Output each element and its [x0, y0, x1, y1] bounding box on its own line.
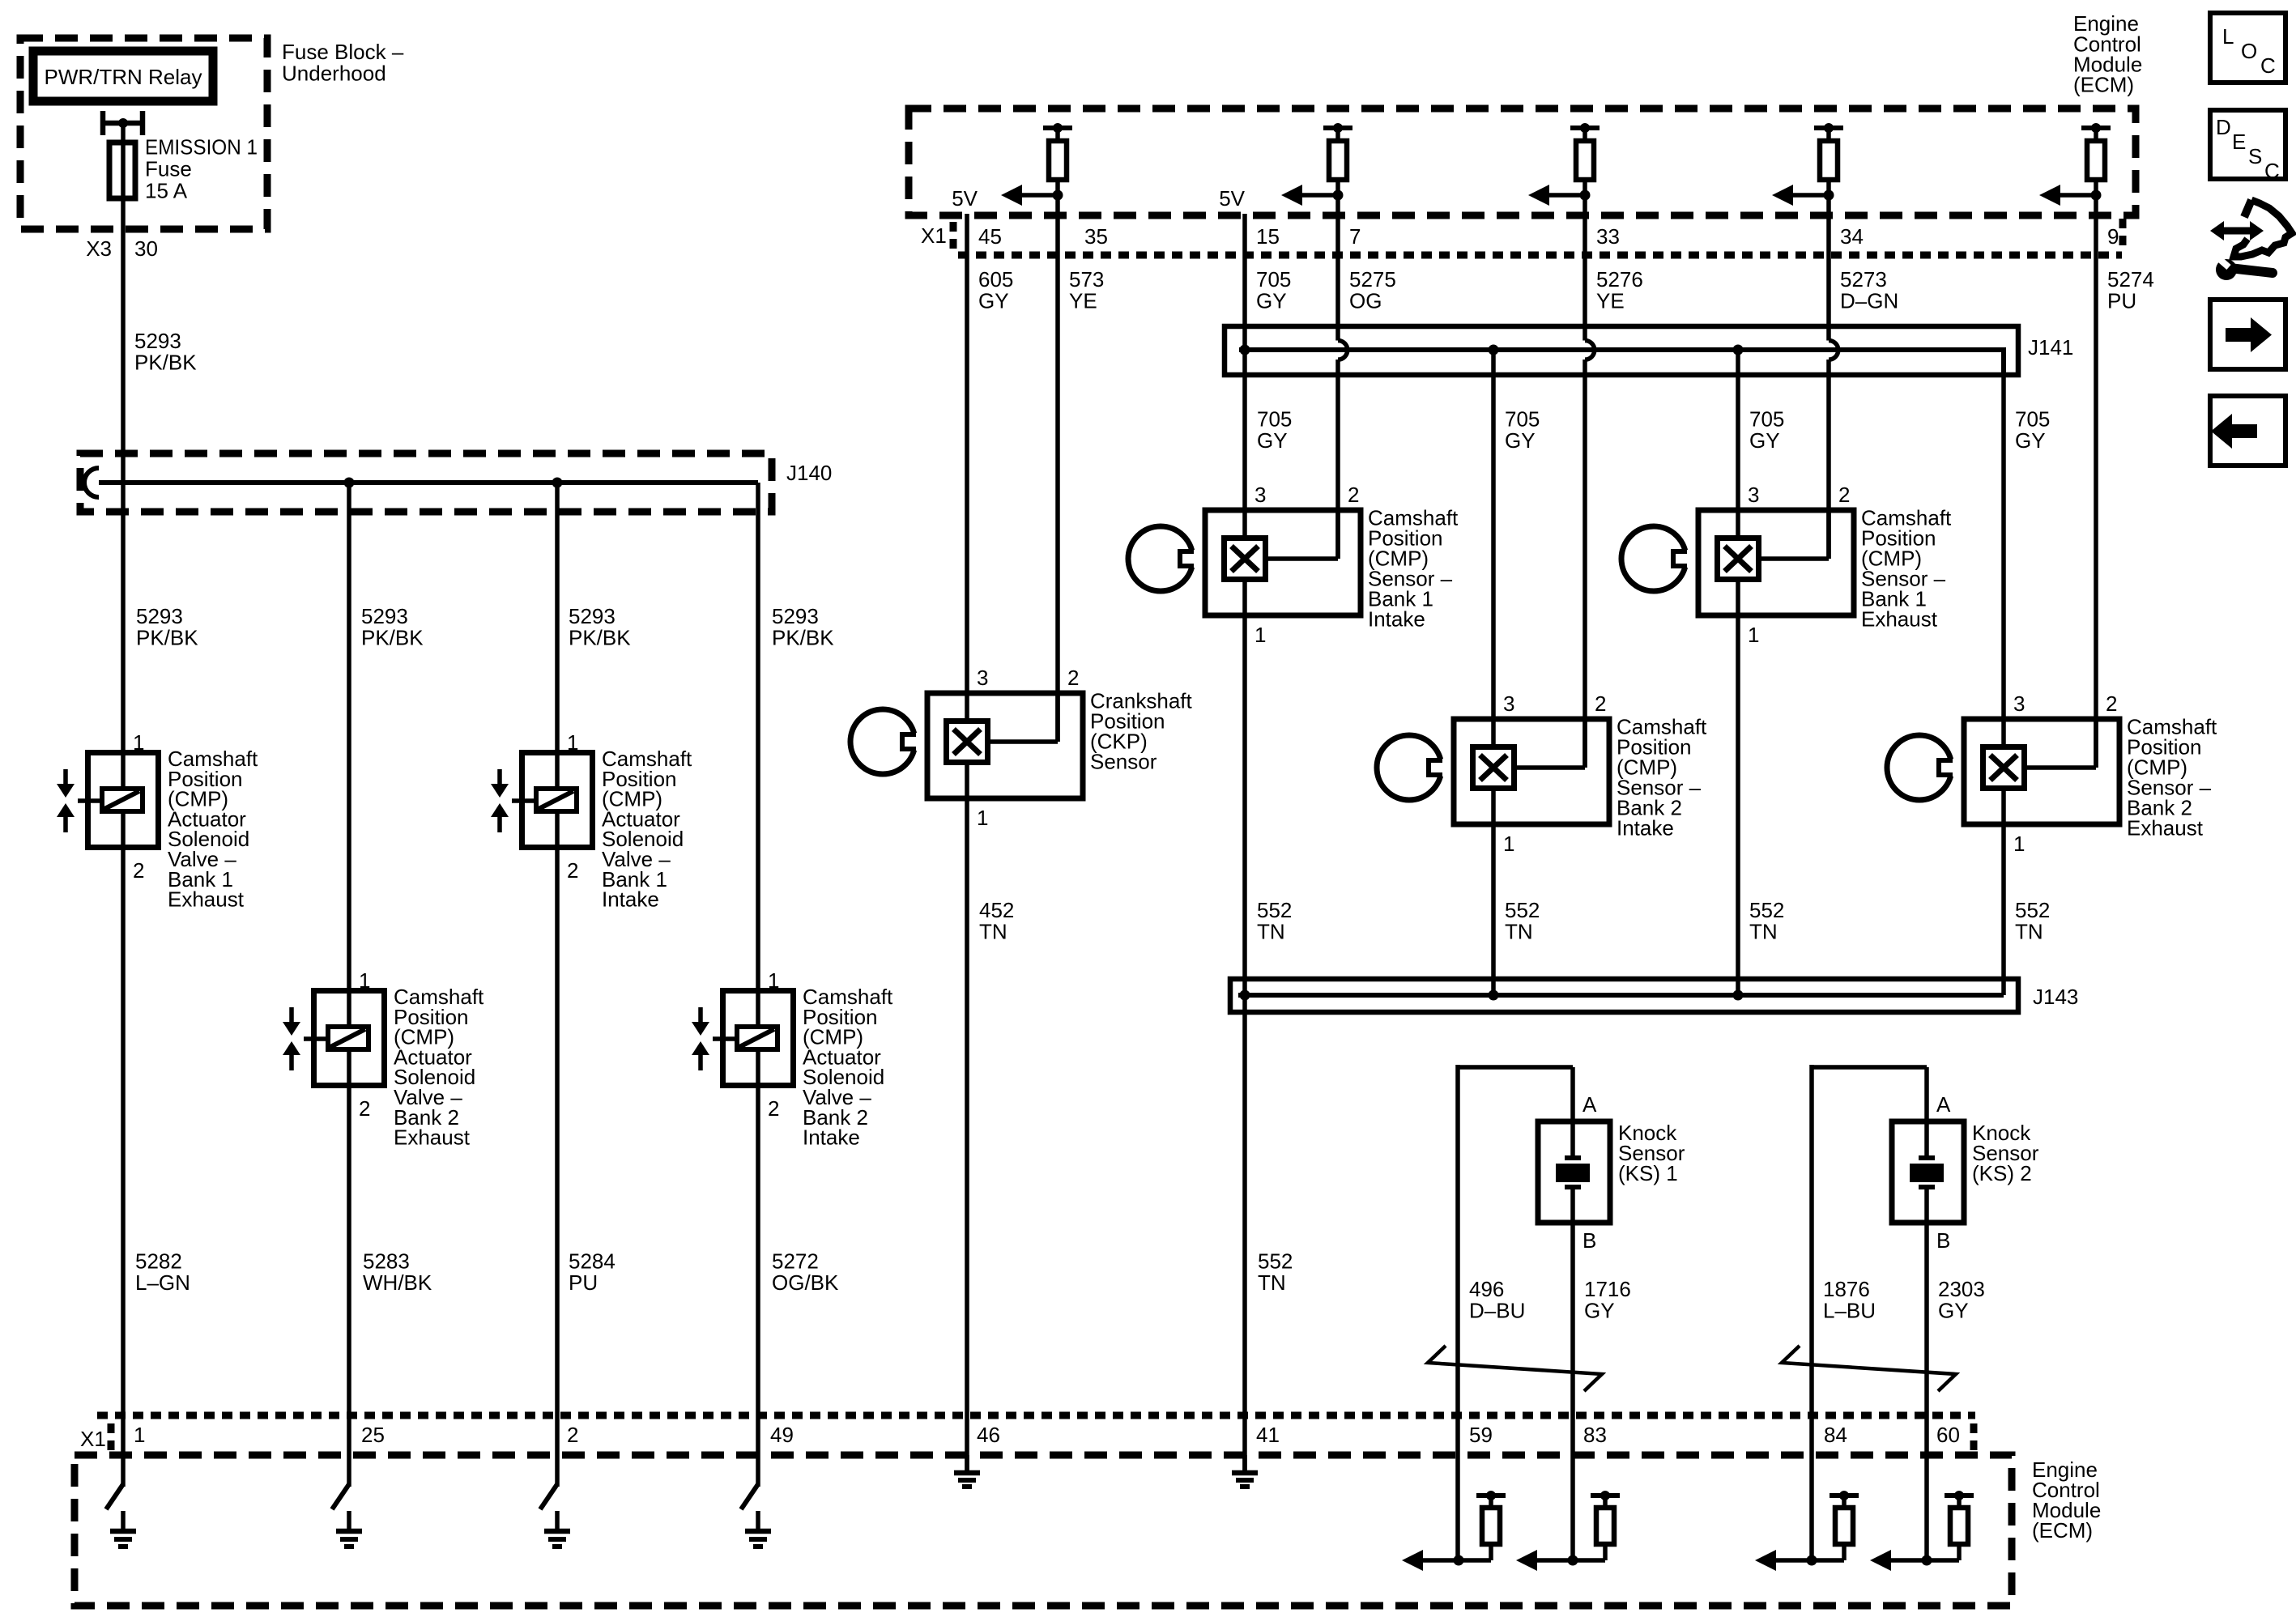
wire 5274 PU pin9 to CMP B2E pin2 — [2094, 195, 2098, 768]
ground pin 1 — [110, 1511, 136, 1547]
ECM internal switch contact pin 1 — [106, 1484, 123, 1509]
svg-text:605: 605 — [978, 267, 1013, 291]
svg-text:15: 15 — [1256, 224, 1280, 249]
svg-text:PU: PU — [2107, 289, 2136, 313]
svg-text:49: 49 — [770, 1423, 794, 1447]
svg-text:2: 2 — [1067, 666, 1079, 690]
svg-text:5282: 5282 — [135, 1249, 182, 1274]
wire 552 TN CMP B1E pin1 to J143 — [1736, 615, 1740, 995]
svg-text:2: 2 — [133, 858, 144, 883]
svg-text:PU: PU — [569, 1270, 598, 1295]
junction dot J143-3 — [1733, 990, 1744, 1001]
svg-text:(KS) 1: (KS) 1 — [1618, 1161, 1678, 1185]
ECM internal output arrow at pin 7 — [1281, 185, 1344, 206]
wire 5283 WH/BK — [347, 1088, 351, 1487]
svg-text:3: 3 — [1503, 691, 1514, 716]
wire 5276 YE pin33 to CMP B2I pin2 — [1582, 360, 1587, 768]
ECM internal bus arrow at pin 84 — [1755, 1550, 1844, 1571]
wire 705 GY J141 to CMP B2E pin3 — [2001, 375, 2006, 721]
CMP sensor bank 1 exhaust reluctor wheel — [1621, 526, 1692, 591]
svg-text:1: 1 — [359, 968, 370, 993]
solenoid CMP actuator bank 1 intake label — [602, 747, 692, 912]
svg-text:(ECM): (ECM) — [2032, 1518, 2093, 1543]
svg-text:D: D — [2216, 115, 2231, 139]
wire 552 TN CMP B1I pin1 to J143 — [1242, 615, 1247, 995]
fuse block label — [282, 40, 404, 86]
svg-text:5273: 5273 — [1840, 267, 1887, 291]
svg-text:60: 60 — [1936, 1423, 1960, 1447]
icon arrow right box — [2210, 300, 2285, 369]
svg-text:L: L — [2222, 24, 2234, 49]
svg-text:3: 3 — [1254, 483, 1266, 507]
svg-text:1: 1 — [2013, 832, 2025, 856]
svg-text:1: 1 — [134, 1423, 145, 1447]
svg-text:83: 83 — [1583, 1423, 1607, 1447]
wire 5293 PK/BK from fuse to J140 — [121, 145, 126, 485]
svg-text:552: 552 — [1505, 898, 1540, 922]
svg-text:Fuse: Fuse — [145, 157, 192, 181]
ECM internal output arrow at pin 35 — [1001, 185, 1063, 206]
svg-text:5284: 5284 — [569, 1249, 616, 1274]
ground pin 2 — [544, 1511, 570, 1547]
junction dot J140-3 — [552, 478, 563, 488]
ground pin 41 — [1232, 1455, 1258, 1487]
svg-text:25: 25 — [361, 1423, 385, 1447]
svg-text:J141: J141 — [2028, 335, 2073, 360]
svg-text:TN: TN — [979, 920, 1007, 944]
svg-text:33: 33 — [1596, 224, 1620, 249]
svg-text:41: 41 — [1256, 1423, 1280, 1447]
ECM internal resistor at pin 35 — [1043, 123, 1072, 195]
svg-text:X3: X3 — [86, 236, 112, 261]
J143 bus wire — [1238, 993, 2004, 998]
svg-text:46: 46 — [977, 1423, 1000, 1447]
svg-text:TN: TN — [1749, 920, 1778, 944]
svg-text:X1: X1 — [80, 1427, 106, 1451]
wire label 1876 L–BU — [1823, 1277, 1876, 1323]
svg-text:84: 84 — [1824, 1423, 1847, 1447]
ECM bottom label — [2032, 1457, 2101, 1543]
wire 552 TN CMP B2I pin1 to J143 — [1491, 824, 1496, 995]
svg-text:(KS) 2: (KS) 2 — [1972, 1161, 2032, 1185]
wire label 1716 GY — [1584, 1277, 1631, 1323]
wire label 5276 YE — [1596, 267, 1643, 313]
svg-text:2: 2 — [1348, 483, 1359, 507]
solenoid CMP actuator bank 1 exhaust label — [168, 747, 258, 912]
wire 5293 PK/BK branch 4 — [756, 483, 760, 990]
J140 splice crimp mark — [84, 468, 99, 497]
icon schematic navigation arrows — [2210, 200, 2292, 257]
svg-text:2303: 2303 — [1938, 1277, 1985, 1301]
solenoid valve CMP actuator bank 1 intake — [491, 753, 593, 848]
svg-text:15 A: 15 A — [145, 179, 188, 203]
svg-text:GY: GY — [978, 289, 1009, 313]
ECM internal bus arrow at pin 60 — [1870, 1550, 1959, 1571]
svg-text:PK/BK: PK/BK — [134, 351, 197, 375]
knock sensor KS 2 — [1892, 1121, 1964, 1223]
svg-text:2: 2 — [359, 1096, 370, 1121]
ECM internal resistor at pin 33 — [1570, 123, 1600, 195]
CMP sensor bank 1 exhaust label — [1861, 505, 1952, 631]
CKP sensor reluctor wheel — [850, 709, 921, 774]
junction dot J143-2 — [1489, 990, 1499, 1001]
wire 5293 PK/BK branch 2 — [347, 483, 351, 990]
wire 5275 OG hop over J141 — [1338, 341, 1348, 360]
wire 5275 OG pin7 upper — [1335, 195, 1340, 341]
ground pin 49 — [745, 1511, 771, 1547]
svg-text:5293: 5293 — [134, 329, 181, 353]
svg-text:GY: GY — [1505, 428, 1536, 453]
ECM internal output arrow at pin 34 — [1772, 185, 1834, 206]
fuse label — [145, 135, 258, 203]
X1 tick right (top) — [2119, 219, 2127, 253]
ECM internal resistor at pin 60 — [1945, 1491, 1974, 1560]
svg-text:Exhaust: Exhaust — [2127, 815, 2204, 840]
ECM internal switch contact pin 2 — [540, 1484, 557, 1509]
svg-text:1: 1 — [567, 730, 578, 755]
wire 5273 D-GN pin34 upper — [1826, 195, 1831, 341]
ground pin 46 — [954, 1455, 980, 1487]
knock sensor KS 2 signal wire — [1924, 1223, 1929, 1563]
ECM internal resistor at pin 59 — [1476, 1491, 1506, 1560]
svg-text:EMISSION 1: EMISSION 1 — [145, 135, 258, 160]
knock sensor KS 2 label — [1972, 1121, 2039, 1185]
svg-text:9: 9 — [2107, 224, 2119, 249]
svg-text:Fuse Block –: Fuse Block – — [282, 40, 404, 64]
junction dot J141 drop3 — [1733, 345, 1744, 355]
J141 bus wire — [1239, 347, 2004, 352]
ECM internal switch contact pin 25 — [332, 1484, 349, 1509]
svg-text:45: 45 — [978, 224, 1002, 249]
X1 tick left (top) — [950, 222, 957, 256]
svg-text:C: C — [2260, 53, 2276, 78]
svg-text:Exhaust: Exhaust — [394, 1126, 471, 1150]
svg-text:Exhaust: Exhaust — [168, 887, 245, 912]
svg-text:2: 2 — [2106, 691, 2117, 716]
svg-text:2: 2 — [567, 1423, 578, 1447]
ECM internal switch contact pin 49 — [741, 1484, 758, 1509]
svg-text:L–BU: L–BU — [1823, 1299, 1876, 1323]
CMP sensor bank 1 intake — [1205, 510, 1361, 615]
svg-text:3: 3 — [2013, 691, 2025, 716]
X1 connector dotted line (top) — [958, 252, 2122, 259]
svg-text:5274: 5274 — [2107, 267, 2154, 291]
ECM internal resistor at pin 84 — [1830, 1491, 1859, 1560]
knock sensor KS 1 — [1538, 1121, 1610, 1223]
solenoid valve CMP actuator bank 2 exhaust — [283, 991, 385, 1086]
wire 705 GY J141 to CMP B1E pin3 — [1736, 350, 1740, 513]
knock sensor KS 1 loop wire — [1458, 1065, 1573, 1563]
svg-text:PK/BK: PK/BK — [361, 626, 424, 650]
svg-text:GY: GY — [1749, 428, 1780, 453]
svg-text:D–BU: D–BU — [1469, 1299, 1525, 1323]
svg-text:1: 1 — [1748, 623, 1759, 647]
svg-text:C: C — [2264, 159, 2280, 183]
wire label 705 GY pin15 — [1256, 267, 1291, 313]
wire 5276 YE pin33 upper — [1582, 195, 1587, 341]
knock sensor KS 1 signal wire — [1570, 1223, 1575, 1563]
svg-text:B: B — [1582, 1228, 1596, 1253]
svg-text:YE: YE — [1596, 289, 1625, 313]
splice pack J141 box — [1225, 326, 2018, 375]
svg-text:Underhood: Underhood — [282, 62, 386, 86]
wire label 5274 PU — [2107, 267, 2154, 313]
svg-text:552: 552 — [1257, 898, 1292, 922]
CMP sensor bank 2 exhaust — [1964, 719, 2119, 824]
ECM internal output arrow at pin 33 — [1528, 185, 1591, 206]
ECM bottom dashed box — [75, 1455, 2012, 1606]
CMP sensor bank 1 intake reluctor wheel — [1128, 526, 1199, 591]
svg-text:B: B — [1936, 1228, 1950, 1253]
svg-text:705: 705 — [1256, 267, 1291, 291]
wire label 5273 D-GN — [1840, 267, 1898, 313]
wire label 2303 GY — [1938, 1277, 1985, 1323]
svg-text:705: 705 — [2015, 407, 2050, 432]
svg-text:35: 35 — [1084, 224, 1108, 249]
wire 5284 PU — [555, 848, 560, 1487]
wire 5276 YE hop over J141 — [1585, 341, 1595, 360]
icon LOC box — [2210, 13, 2285, 83]
wire 5282 L-GN — [121, 848, 126, 1487]
wire 452 TN CKP pin1 to ECM pin46 — [965, 798, 969, 1474]
CMP sensor bank 2 exhaust label — [2127, 714, 2217, 840]
svg-text:D–GN: D–GN — [1840, 289, 1898, 313]
svg-text:TN: TN — [1505, 920, 1533, 944]
svg-text:5275: 5275 — [1349, 267, 1396, 291]
svg-text:705: 705 — [1749, 407, 1784, 432]
svg-text:552: 552 — [1258, 1249, 1293, 1274]
solenoid valve CMP actuator bank 2 intake — [692, 991, 794, 1086]
wire 573 YE pin35 to CKP pin2 — [1055, 195, 1060, 742]
CMP sensor bank 1 intake label — [1368, 505, 1459, 631]
ECM internal bus arrow at pin 59 — [1402, 1550, 1491, 1571]
junction dot J141 pin15 — [1240, 345, 1250, 355]
svg-text:OG/BK: OG/BK — [772, 1270, 839, 1295]
junction dot J140-2 — [344, 478, 355, 488]
ECM internal resistor at pin 9 — [2081, 123, 2111, 195]
svg-text:5293: 5293 — [136, 604, 183, 628]
svg-text:J143: J143 — [2033, 985, 2078, 1009]
svg-text:705: 705 — [1257, 407, 1292, 432]
svg-text:2: 2 — [1838, 483, 1850, 507]
fuse F1 EMISSION 1 15A — [109, 143, 135, 198]
wire label 573 YE — [1069, 267, 1104, 313]
icon DESC box — [2210, 110, 2285, 183]
wire 5273 D-GN hop over J141 — [1829, 341, 1838, 360]
svg-text:Intake: Intake — [602, 887, 659, 912]
svg-text:PK/BK: PK/BK — [136, 626, 198, 650]
wire 5273 D-GN pin34 to CMP B1E pin2 — [1826, 360, 1831, 559]
svg-text:PK/BK: PK/BK — [772, 626, 834, 650]
ground pin 25 — [336, 1511, 362, 1547]
svg-text:Exhaust: Exhaust — [1861, 606, 1938, 631]
svg-text:GY: GY — [1257, 428, 1288, 453]
svg-text:TN: TN — [2015, 920, 2043, 944]
icon wrench — [2216, 257, 2273, 280]
CMP sensor bank 1 exhaust — [1698, 510, 1854, 615]
svg-text:YE: YE — [1069, 289, 1097, 313]
svg-text:WH/BK: WH/BK — [363, 1270, 432, 1295]
svg-text:1: 1 — [1503, 832, 1514, 856]
ECM top pin numbers — [978, 224, 2119, 249]
svg-text:1716: 1716 — [1584, 1277, 1631, 1301]
svg-text:5293: 5293 — [772, 604, 819, 628]
svg-text:Sensor: Sensor — [1090, 749, 1157, 773]
wire 552 TN J143 to ECM pin41 — [1242, 995, 1247, 1474]
svg-text:5293: 5293 — [361, 604, 408, 628]
ECM top label — [2073, 11, 2142, 97]
splice pack J140 dashed box — [80, 453, 772, 512]
wire label 5293 PK/BK — [134, 329, 197, 375]
connector X3 pin 30 labels — [86, 236, 158, 261]
CMP sensor bank 2 intake reluctor wheel — [1377, 735, 1447, 800]
svg-text:Intake: Intake — [1617, 815, 1674, 840]
svg-text:X1: X1 — [921, 223, 947, 248]
ECM internal resistor at pin 83 — [1591, 1491, 1620, 1560]
svg-text:A: A — [1582, 1092, 1597, 1117]
svg-text:1: 1 — [768, 968, 779, 993]
svg-text:5276: 5276 — [1596, 267, 1643, 291]
svg-text:705: 705 — [1505, 407, 1540, 432]
svg-text:1: 1 — [977, 806, 988, 830]
svg-text:5272: 5272 — [772, 1249, 819, 1274]
svg-text:552: 552 — [1749, 898, 1784, 922]
svg-text:2: 2 — [1595, 691, 1606, 716]
svg-text:GY: GY — [2015, 428, 2046, 453]
fuse block underhood dashed box — [20, 38, 267, 229]
wire 605 GY pin45 to CKP pin3 — [965, 214, 969, 696]
svg-text:2: 2 — [567, 858, 578, 883]
icon arrow left box — [2210, 396, 2285, 466]
svg-text:3: 3 — [977, 666, 988, 690]
CMP sensor bank 2 intake label — [1617, 714, 1707, 840]
twisted pair symbol KS 2 — [1782, 1346, 1956, 1391]
wire label 496 D–BU — [1469, 1277, 1525, 1323]
svg-text:A: A — [1936, 1092, 1951, 1117]
wire 5272 OG/BK — [756, 1088, 760, 1487]
CKP sensor label — [1090, 688, 1192, 773]
wire 552 TN CMP B2E pin1 to J143 — [2001, 824, 2006, 995]
svg-text:30: 30 — [134, 236, 158, 261]
junction dot J141 drop2 — [1489, 345, 1499, 355]
wire 5275 OG pin7 to CMP B1I pin2 — [1335, 360, 1340, 559]
ECM internal output arrow at pin 9 — [2039, 185, 2102, 206]
X1 tick right (bottom) — [1970, 1423, 1978, 1454]
CMP sensor bank 2 exhaust reluctor wheel — [1887, 735, 1957, 800]
junction dot J143-1 — [1240, 990, 1250, 1001]
svg-text:2: 2 — [768, 1096, 779, 1121]
svg-text:7: 7 — [1349, 224, 1361, 249]
J141 bus corner drop — [2001, 347, 2006, 375]
svg-text:496: 496 — [1469, 1277, 1504, 1301]
svg-text:J140: J140 — [786, 461, 832, 485]
J140 bus wire — [99, 480, 758, 485]
svg-text:GY: GY — [1584, 1299, 1615, 1323]
svg-text:(ECM): (ECM) — [2073, 73, 2134, 97]
X1 tick left (bottom) — [108, 1423, 115, 1454]
svg-text:GY: GY — [1256, 289, 1287, 313]
splice pack J143 box — [1230, 979, 2018, 1012]
ECM internal resistor at pin 34 — [1814, 123, 1843, 195]
wire 5293 PK/BK branch 3 — [555, 483, 560, 752]
svg-text:5283: 5283 — [363, 1249, 410, 1274]
svg-text:O: O — [2241, 39, 2257, 63]
svg-text:3: 3 — [1748, 483, 1759, 507]
relay K1 PWR/TRN Relay — [33, 51, 213, 101]
CMP sensor bank 2 intake — [1454, 719, 1609, 824]
wire from relay to fuse — [121, 123, 126, 145]
ECM bottom X1 dotted connector line — [97, 1412, 1975, 1419]
solenoid CMP actuator bank 2 exhaust label — [394, 985, 484, 1150]
wire label 5275 OG — [1349, 267, 1396, 313]
svg-text:452: 452 — [979, 898, 1014, 922]
ECM internal bus arrow at pin 83 — [1516, 1550, 1605, 1571]
svg-text:Intake: Intake — [803, 1126, 860, 1150]
svg-text:573: 573 — [1069, 267, 1104, 291]
solenoid valve CMP actuator bank 1 exhaust — [57, 753, 159, 848]
wire 705 GY pin15 to J141 — [1242, 214, 1247, 350]
svg-text:S: S — [2248, 144, 2262, 168]
svg-text:552: 552 — [2015, 898, 2050, 922]
wire 5293 PK/BK branch 1 — [121, 483, 126, 752]
svg-text:PK/BK: PK/BK — [569, 626, 631, 650]
svg-text:L–GN: L–GN — [135, 1270, 190, 1295]
knock sensor KS 2 loop wire — [1812, 1065, 1927, 1563]
svg-text:E: E — [2232, 130, 2246, 154]
svg-text:5V: 5V — [952, 186, 978, 211]
svg-text:OG: OG — [1349, 289, 1382, 313]
ECM bottom pin numbers — [134, 1423, 1960, 1447]
svg-text:34: 34 — [1840, 224, 1864, 249]
svg-text:TN: TN — [1257, 920, 1285, 944]
svg-text:PWR/TRN Relay: PWR/TRN Relay — [44, 65, 202, 89]
solenoid CMP actuator bank 2 intake label — [803, 985, 893, 1150]
wire 705 GY J141 to CMP B2I pin3 — [1491, 350, 1496, 721]
ECM internal resistor at pin 7 — [1323, 123, 1352, 195]
svg-text:TN: TN — [1258, 1270, 1286, 1295]
svg-text:1: 1 — [133, 730, 144, 755]
wire label 605 GY — [978, 267, 1013, 313]
svg-text:Intake: Intake — [1368, 606, 1425, 631]
svg-text:1876: 1876 — [1823, 1277, 1870, 1301]
wire 705 GY J141 to CMP B1I pin3 — [1242, 350, 1247, 513]
svg-text:5293: 5293 — [569, 604, 616, 628]
CKP sensor — [927, 693, 1083, 798]
svg-text:59: 59 — [1469, 1423, 1493, 1447]
ECM top dashed box — [909, 109, 2136, 215]
twisted pair symbol KS 1 — [1428, 1346, 1602, 1391]
relay terminal 30 connector — [103, 111, 143, 135]
svg-text:1: 1 — [1254, 623, 1266, 647]
svg-text:5V: 5V — [1219, 186, 1245, 211]
knock sensor KS 1 label — [1618, 1121, 1685, 1185]
svg-text:GY: GY — [1938, 1299, 1969, 1323]
